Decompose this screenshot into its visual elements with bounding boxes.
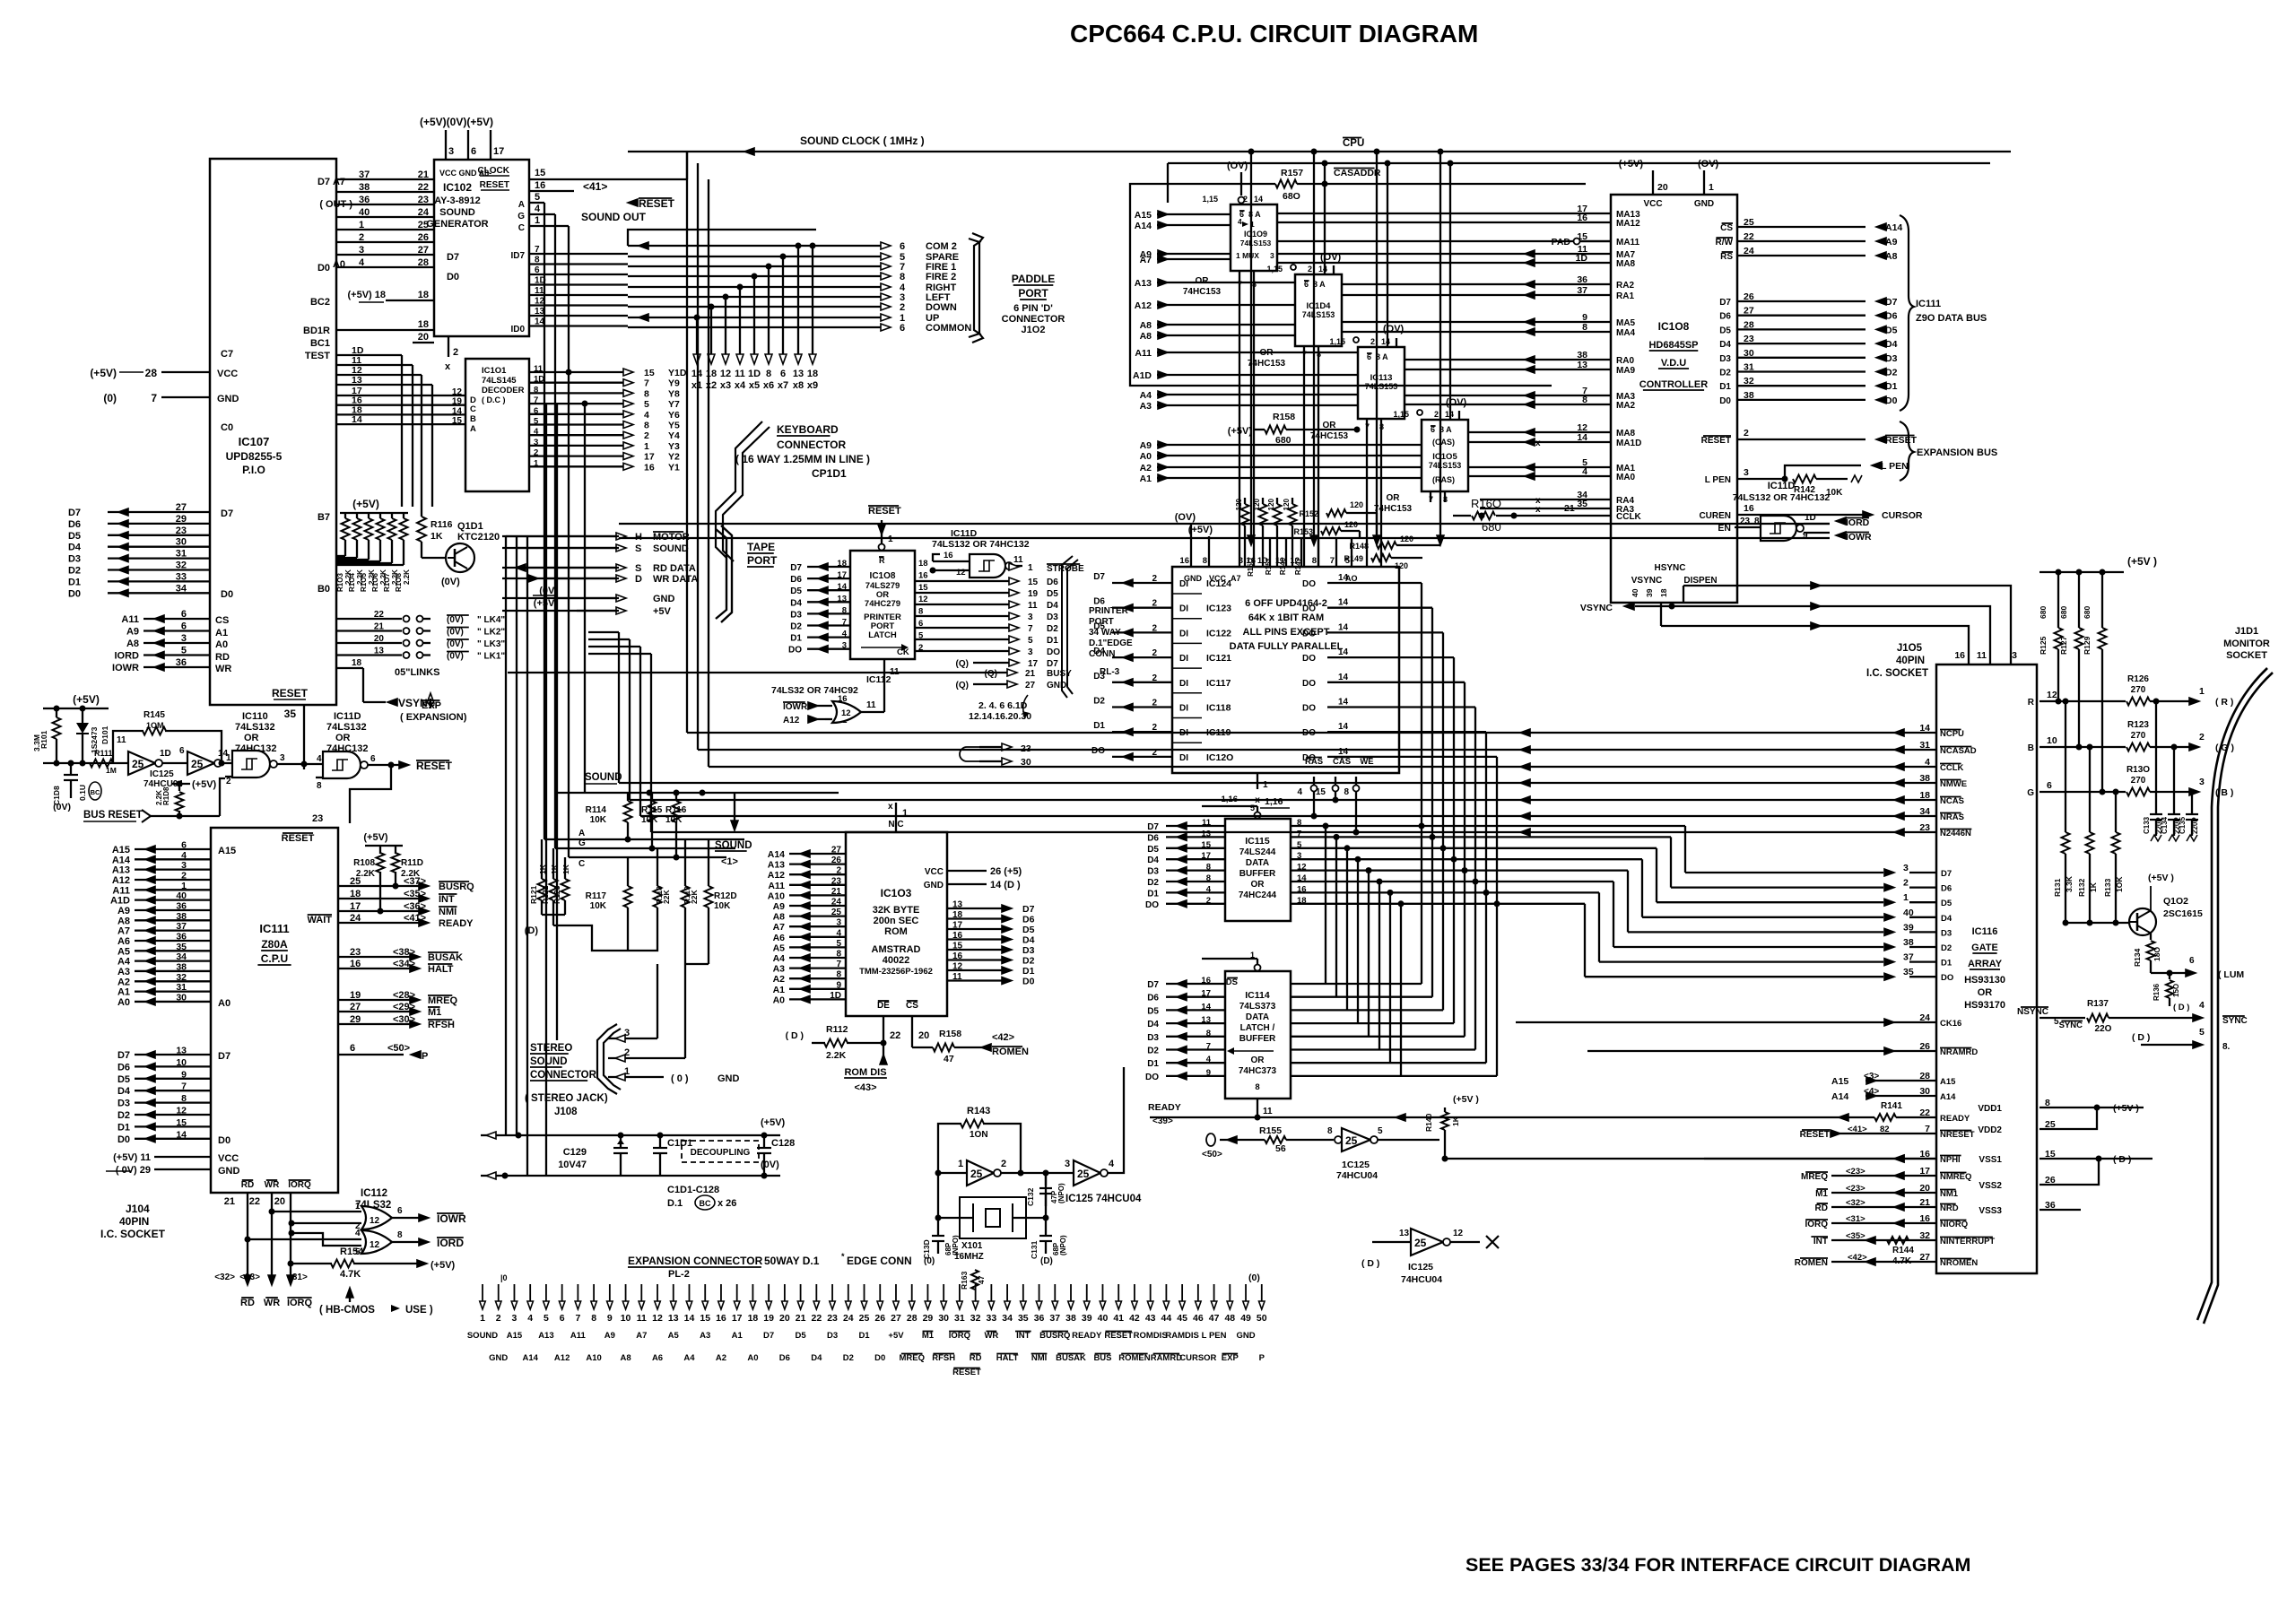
svg-text:A7: A7	[333, 177, 345, 187]
svg-text:36: 36	[359, 195, 370, 205]
svg-text:R116: R116	[430, 519, 453, 530]
svg-text:IC107: IC107	[239, 435, 270, 448]
svg-text:D7: D7	[1147, 822, 1159, 832]
svg-text:1: 1	[1028, 563, 1033, 573]
svg-text:INT: INT	[1813, 1237, 1828, 1247]
svg-text:C.P.U: C.P.U	[261, 952, 288, 965]
svg-text:680: 680	[2059, 606, 2068, 619]
svg-text:C: C	[518, 223, 525, 233]
svg-text:L PEN: L PEN	[1705, 475, 1731, 485]
svg-text:8: 8	[181, 1093, 187, 1104]
svg-text:D7: D7	[1885, 297, 1898, 308]
svg-text:<33>: <33>	[239, 1273, 260, 1282]
svg-text:A15: A15	[1135, 210, 1152, 221]
svg-text:23: 23	[1744, 334, 1754, 344]
svg-text:RS: RS	[1720, 252, 1733, 262]
svg-text:26: 26	[2045, 1175, 2056, 1186]
svg-text:11: 11	[1263, 1107, 1273, 1116]
svg-text:<23>: <23>	[1846, 1167, 1865, 1177]
svg-text:C135: C135	[2179, 816, 2187, 834]
Z80 busak halt rows	[338, 956, 413, 958]
svg-text:D7: D7	[1047, 659, 1058, 669]
svg-text:PORT: PORT	[1089, 617, 1114, 627]
svg-text:VSYNC: VSYNC	[1580, 603, 1613, 613]
svg-text:(NPO): (NPO)	[1059, 1235, 1067, 1255]
svg-text:VDD1: VDD1	[1978, 1104, 2002, 1114]
svg-text:D2: D2	[68, 566, 81, 577]
svg-text:D3: D3	[1885, 353, 1898, 364]
svg-text:C131: C131	[1030, 1240, 1039, 1259]
svg-text:VSS2: VSS2	[1979, 1181, 2002, 1191]
svg-text:MA12: MA12	[1616, 219, 1640, 229]
svg-text:D0: D0	[1719, 396, 1731, 406]
svg-text:SOUND OUT: SOUND OUT	[581, 211, 647, 223]
paddle port rows	[628, 245, 883, 247]
IC102 test pin 2	[448, 336, 449, 357]
svg-text:( D ): ( D )	[2173, 1003, 2189, 1012]
svg-text:74LS132: 74LS132	[235, 722, 275, 733]
svg-text:14: 14	[176, 1129, 187, 1140]
svg-text:74HC153: 74HC153	[1310, 431, 1349, 441]
svg-text:R/W: R/W	[1716, 238, 1734, 248]
wire RAS CAS WE drops	[1313, 791, 1315, 816]
wire bus RAM DO verticals to IC114	[1421, 583, 1422, 984]
svg-text:A1: A1	[117, 987, 130, 998]
svg-text:SOCKET: SOCKET	[2226, 650, 2267, 661]
svg-text:A6: A6	[652, 1353, 663, 1363]
svg-text:D6: D6	[1147, 833, 1159, 843]
svg-text:A7: A7	[117, 926, 130, 937]
svg-text:7: 7	[1028, 624, 1033, 634]
svg-text:MA0: MA0	[1616, 473, 1636, 482]
svg-text:A3: A3	[1140, 401, 1152, 412]
svg-text:38: 38	[176, 961, 187, 972]
svg-text:12: 12	[952, 962, 963, 972]
svg-text:D6: D6	[68, 519, 81, 530]
svg-text:R1O5: R1O5	[360, 573, 368, 592]
svg-text:19: 19	[1028, 589, 1039, 599]
svg-text:X101: X101	[961, 1241, 983, 1251]
svg-text:C134: C134	[2161, 816, 2169, 834]
svg-text:26: 26	[418, 232, 429, 243]
svg-text:x3: x3	[720, 380, 731, 391]
svg-text:G: G	[578, 838, 586, 848]
svg-text:DATA: DATA	[1246, 1012, 1269, 1022]
svg-text:8: 8	[397, 1230, 403, 1240]
svg-text:11: 11	[1977, 650, 1987, 661]
svg-text:READY: READY	[1148, 1102, 1181, 1113]
svg-text:1,15: 1,15	[1266, 265, 1283, 274]
svg-text:1ON: 1ON	[970, 1130, 988, 1140]
svg-text:8: 8	[836, 970, 841, 980]
capacitor C108 0.1U	[70, 763, 72, 775]
svg-text:VSYNC: VSYNC	[1631, 576, 1662, 586]
svg-text:NROMEN: NROMEN	[1940, 1258, 1978, 1268]
svg-text:A14: A14	[1885, 222, 1902, 233]
svg-text:1: 1	[2199, 686, 2205, 697]
svg-text:Y9: Y9	[668, 378, 680, 389]
svg-text:8: 8	[1582, 395, 1587, 405]
svg-text:27: 27	[1025, 681, 1036, 691]
svg-text:D1: D1	[117, 1122, 130, 1133]
svg-text:14: 14	[1338, 747, 1349, 757]
svg-text:DO: DO	[1941, 973, 1953, 983]
inverter IC125f unused	[1372, 1241, 1411, 1243]
svg-text:1,15: 1,15	[1329, 337, 1345, 346]
svg-text:16: 16	[952, 951, 963, 961]
svg-text:R1O8: R1O8	[395, 573, 403, 592]
svg-text:C133: C133	[2143, 816, 2151, 834]
svg-text:D2: D2	[1885, 368, 1898, 378]
svg-text:7: 7	[1330, 556, 1335, 566]
svg-text:P: P	[422, 1051, 428, 1062]
svg-text:1: 1	[1709, 182, 1714, 193]
svg-text:IC122: IC122	[1206, 628, 1231, 638]
svg-text:ROMDIS: ROMDIS	[1134, 1331, 1168, 1341]
resistor R158 680	[1254, 429, 1265, 430]
svg-text:RESET: RESET	[1701, 436, 1731, 446]
svg-text:38: 38	[1744, 390, 1754, 401]
svg-text:12: 12	[841, 708, 851, 718]
svg-text:DO: DO	[1302, 654, 1316, 664]
svg-text:17: 17	[350, 901, 361, 912]
svg-text:4: 4	[836, 928, 841, 938]
svg-text:8: 8	[644, 388, 649, 399]
svg-text:40: 40	[1903, 908, 1914, 918]
svg-text:25: 25	[970, 1168, 983, 1180]
svg-text:2: 2	[1152, 723, 1157, 733]
svg-text:SOUND: SOUND	[653, 543, 689, 554]
svg-text:5: 5	[1345, 556, 1351, 566]
Z80 power rows	[154, 1156, 211, 1158]
svg-text:16: 16	[1919, 1213, 1930, 1224]
svg-text:x2: x2	[706, 380, 717, 391]
svg-text:ARRAY: ARRAY	[1968, 959, 2003, 969]
svg-text:A15: A15	[1831, 1076, 1848, 1087]
wire R G B rows	[2039, 700, 2126, 702]
svg-text:3: 3	[359, 245, 364, 256]
svg-text:R112: R112	[826, 1024, 848, 1035]
svg-text:40: 40	[176, 890, 187, 901]
svg-text:1OM: 1OM	[146, 721, 164, 730]
svg-text:3: 3	[512, 1313, 517, 1324]
svg-text:12: 12	[652, 1313, 663, 1324]
svg-text:D0: D0	[117, 1134, 130, 1145]
svg-text:|0: |0	[500, 1273, 508, 1282]
svg-text:14: 14	[1338, 598, 1349, 608]
svg-text:5: 5	[1378, 1126, 1383, 1136]
svg-text:74LS132 OR 74HC132: 74LS132 OR 74HC132	[932, 539, 1030, 550]
svg-text:D5: D5	[1941, 899, 1952, 908]
svg-text:D6: D6	[1147, 994, 1159, 1003]
IC IC103 32K ROM	[846, 832, 947, 1016]
IC107 VCC GND pins	[161, 371, 210, 373]
wire sound network joins	[628, 937, 657, 951]
resistors R125 R127 R129 680	[2057, 572, 2059, 628]
svg-text:6: 6	[535, 265, 540, 275]
svg-text:2: 2	[181, 870, 187, 881]
svg-text:26 (+5): 26 (+5)	[990, 866, 1022, 877]
svg-text:22: 22	[249, 1196, 260, 1207]
svg-text:A0: A0	[218, 998, 230, 1009]
svg-text:24: 24	[418, 207, 430, 218]
svg-text:Y6: Y6	[668, 410, 680, 421]
svg-text:(0V): (0V)	[447, 639, 464, 649]
svg-text:18O: 18O	[2152, 947, 2161, 961]
svg-text:16: 16	[1577, 213, 1587, 223]
IC107 address/control rows left	[143, 618, 210, 620]
svg-text:D5: D5	[1022, 925, 1035, 935]
svg-text:74LS132 OR 74HC132: 74LS132 OR 74HC132	[1733, 492, 1831, 503]
svg-text:D101: D101	[100, 725, 109, 744]
svg-text:D3: D3	[1719, 354, 1731, 364]
svg-text:2: 2	[624, 1047, 630, 1058]
svg-text:13: 13	[952, 900, 963, 910]
svg-text:RESET: RESET	[639, 197, 675, 210]
svg-text:Y4: Y4	[668, 430, 680, 441]
svg-text:D1: D1	[1022, 966, 1035, 977]
svg-text:<32>: <32>	[1846, 1198, 1865, 1208]
svg-text:SOUND: SOUND	[585, 772, 622, 783]
svg-text:J1O2: J1O2	[1022, 325, 1046, 335]
wire bus reset to Z80	[350, 765, 391, 823]
wire Q102 base row	[2066, 922, 2129, 924]
svg-text:3: 3	[1028, 612, 1033, 622]
svg-text:<50>: <50>	[1202, 1150, 1222, 1160]
svg-text:R125: R125	[2039, 636, 2048, 655]
svg-text:<23>: <23>	[1846, 1184, 1865, 1194]
svg-text:11: 11	[534, 364, 544, 374]
svg-text:D7: D7	[218, 1051, 230, 1062]
svg-text:3: 3	[1028, 647, 1033, 657]
svg-text:MONITOR: MONITOR	[2223, 638, 2270, 649]
svg-text:1: 1	[359, 220, 364, 230]
wire sound clock 1MHz rail	[628, 151, 2011, 152]
svg-text:DS: DS	[1226, 977, 1238, 987]
svg-text:R141: R141	[1881, 1101, 1902, 1111]
svg-text:R13O: R13O	[2126, 765, 2150, 775]
enclosing rectangle 153 block	[1130, 184, 1552, 386]
svg-text:<34>: <34>	[393, 959, 415, 969]
svg-text:C1D1-C128: C1D1-C128	[667, 1185, 719, 1195]
svg-text:1: 1	[624, 1066, 630, 1077]
svg-text:MREQ: MREQ	[1801, 1172, 1828, 1182]
svg-text:15: 15	[918, 583, 928, 593]
svg-text:1,15: 1,15	[1393, 410, 1409, 419]
svg-text:(+5V): (+5V)	[192, 779, 217, 790]
svg-text:A9: A9	[1885, 237, 1898, 248]
svg-text:12: 12	[1453, 1229, 1464, 1238]
svg-text:14: 14	[1201, 1002, 1211, 1012]
svg-text:IC1O3: IC1O3	[881, 887, 912, 899]
svg-text:D2: D2	[1022, 956, 1035, 967]
svg-text:B: B	[470, 414, 476, 424]
IC IC111 Z80A CPU	[211, 828, 338, 1193]
svg-text:4: 4	[1925, 757, 1930, 768]
svg-text:D5: D5	[1147, 845, 1159, 855]
svg-text:26: 26	[874, 1313, 885, 1324]
svg-text:<31>: <31>	[1846, 1214, 1865, 1224]
svg-text:18: 18	[748, 1313, 759, 1324]
svg-text:17: 17	[1028, 659, 1039, 669]
IC114 pin 11 bottom	[1257, 1099, 1258, 1117]
svg-text:74HC279: 74HC279	[865, 599, 900, 609]
wire bus MA RA rows to VDU	[1277, 213, 1611, 214]
svg-text:4: 4	[1582, 466, 1587, 477]
svg-text:D3: D3	[68, 554, 81, 565]
svg-text:A15: A15	[507, 1331, 523, 1341]
svg-text:(0V): (0V)	[539, 586, 558, 596]
resistor R134 180	[2150, 933, 2152, 940]
keyboard connector bracket	[716, 421, 762, 558]
svg-text:16: 16	[944, 551, 953, 560]
svg-text:11: 11	[637, 1313, 647, 1324]
svg-text:RESET: RESET	[282, 833, 315, 844]
svg-text:3: 3	[836, 918, 841, 928]
svg-text:( LUM: ( LUM	[2218, 969, 2244, 980]
svg-text:R116: R116	[665, 805, 687, 815]
svg-text:16: 16	[350, 959, 361, 969]
svg-text:13: 13	[176, 1046, 187, 1056]
svg-text:680: 680	[2039, 606, 2048, 619]
svg-text:12: 12	[956, 568, 966, 578]
svg-text:22O: 22O	[2095, 1024, 2112, 1034]
wire select verticals CPU CASADDR	[1250, 152, 1252, 538]
svg-text:I.C. SOCKET: I.C. SOCKET	[100, 1228, 166, 1240]
svg-text:M1: M1	[428, 1007, 441, 1018]
svg-text:74LS153: 74LS153	[1240, 239, 1272, 248]
VDU power pins	[1652, 170, 1654, 195]
wire bus 153 outputs to RAM address pins	[1239, 271, 1240, 567]
svg-text:20: 20	[1657, 182, 1668, 193]
svg-text:31: 31	[1744, 362, 1754, 373]
svg-text:7: 7	[644, 378, 649, 389]
RAM pin1 ground	[1257, 773, 1258, 789]
svg-text:8: 8	[1582, 322, 1587, 333]
svg-text:25: 25	[191, 758, 204, 770]
svg-text:A0: A0	[333, 259, 345, 270]
wire bus IC115 outputs staircase to gate array D pins	[1291, 825, 1685, 827]
svg-text:1D: 1D	[1805, 513, 1816, 523]
svg-text:+5V: +5V	[888, 1331, 904, 1341]
svg-text:D4: D4	[68, 543, 82, 553]
svg-text:IC11D: IC11D	[334, 711, 361, 722]
svg-text:11: 11	[735, 369, 745, 379]
svg-text:4: 4	[181, 850, 187, 861]
svg-text:37: 37	[359, 169, 370, 180]
svg-text:CONNECTOR: CONNECTOR	[530, 1070, 597, 1081]
svg-text:7: 7	[151, 392, 157, 404]
svg-text:4: 4	[2199, 1000, 2205, 1011]
svg-text:A13: A13	[538, 1331, 553, 1341]
svg-text:( 0 ): ( 0 )	[671, 1073, 689, 1084]
svg-text:A7: A7	[1140, 255, 1152, 265]
svg-text:D1: D1	[1885, 381, 1898, 392]
svg-text:R155: R155	[1259, 1125, 1282, 1136]
svg-text:25: 25	[1414, 1237, 1427, 1249]
svg-text:R1O3: R1O3	[336, 573, 344, 592]
svg-text:A4: A4	[117, 957, 131, 968]
svg-text:x7: x7	[778, 380, 788, 391]
svg-text:BC1: BC1	[310, 338, 330, 349]
svg-text:8: 8	[317, 781, 322, 791]
svg-text:2: 2	[644, 430, 649, 441]
svg-text:A8: A8	[773, 912, 786, 923]
svg-text:INT: INT	[439, 894, 455, 905]
svg-text:14 (D ): 14 (D )	[990, 880, 1021, 890]
svg-text:31: 31	[1919, 740, 1930, 751]
svg-text:IORQ: IORQ	[287, 1298, 313, 1308]
svg-text:26: 26	[1744, 291, 1754, 302]
svg-text:RD: RD	[970, 1353, 982, 1363]
svg-text:8: 8	[1255, 1082, 1259, 1092]
svg-text:25: 25	[831, 908, 842, 917]
svg-text:21: 21	[224, 1196, 235, 1207]
svg-text:11: 11	[1028, 601, 1038, 611]
svg-text:R123: R123	[2127, 720, 2149, 730]
svg-text:D3: D3	[790, 610, 802, 620]
wire IORD IOWR long rails	[619, 523, 1830, 525]
svg-text:7: 7	[842, 618, 847, 628]
svg-text:IC114: IC114	[1245, 990, 1270, 1001]
svg-text:R122: R122	[541, 885, 550, 904]
svg-text:IORD: IORD	[1846, 517, 1870, 528]
svg-text:R132: R132	[2077, 878, 2086, 897]
svg-text:IOWR: IOWR	[112, 663, 139, 673]
svg-text:2: 2	[900, 302, 905, 313]
svg-text:05"LINKS: 05"LINKS	[395, 667, 439, 678]
svg-text:2.2K: 2.2K	[155, 790, 163, 805]
svg-text:KTC2120: KTC2120	[457, 532, 500, 543]
svg-text:25: 25	[1077, 1168, 1090, 1180]
links LK1-LK4	[336, 618, 402, 620]
svg-text:A15: A15	[112, 845, 130, 856]
svg-text:(+5V): (+5V)	[90, 367, 117, 379]
svg-text:*: *	[841, 1252, 845, 1261]
svg-text:6: 6	[2189, 956, 2195, 966]
svg-text:GATE: GATE	[1971, 942, 1998, 953]
svg-text:1K: 1K	[561, 864, 570, 874]
ROM address rows	[789, 853, 846, 855]
svg-text:(0V): (0V)	[447, 652, 464, 662]
svg-text:A7: A7	[1231, 574, 1241, 583]
svg-text:A6: A6	[117, 936, 130, 947]
svg-text:34: 34	[176, 951, 187, 962]
svg-text:270: 270	[2131, 731, 2146, 741]
svg-text:RESET: RESET	[868, 506, 901, 517]
svg-text:D3: D3	[117, 1099, 130, 1109]
svg-text:15: 15	[176, 1117, 187, 1128]
svg-text:6: 6	[397, 1206, 403, 1216]
svg-text:RA0: RA0	[1616, 356, 1634, 366]
svg-text:PADDLE: PADDLE	[1012, 273, 1055, 285]
svg-text:GENERATOR: GENERATOR	[426, 219, 488, 230]
svg-text:220P: 220P	[2191, 817, 2199, 834]
svg-text:SEE PAGES 33/34 FOR INTERFACE: SEE PAGES 33/34 FOR INTERFACE CIRCUIT DI…	[1465, 1554, 1970, 1576]
svg-text:( EXPANSION): ( EXPANSION)	[400, 712, 467, 723]
IC IC108 HD6845SP VDU controller	[1611, 195, 1737, 603]
svg-text:x: x	[888, 802, 893, 812]
resistor R143 10M	[938, 1124, 961, 1173]
svg-text:A2: A2	[716, 1353, 726, 1363]
svg-text:16: 16	[1179, 556, 1189, 566]
svg-text:12: 12	[1290, 556, 1300, 566]
svg-text:D6: D6	[1941, 884, 1952, 894]
svg-text:32: 32	[176, 972, 187, 983]
svg-text:SYNC: SYNC	[2222, 1016, 2248, 1026]
svg-text:DE: DE	[877, 1001, 890, 1011]
svg-text:38: 38	[1903, 937, 1914, 948]
